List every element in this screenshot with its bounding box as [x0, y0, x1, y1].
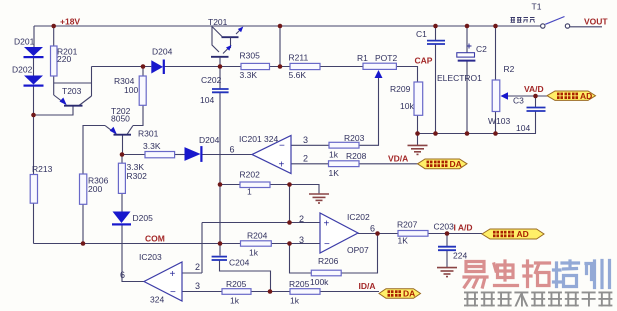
ground G3 below C203	[437, 268, 457, 277]
resistor R207	[398, 231, 428, 237]
svg-text:R206: R206	[318, 256, 339, 266]
svg-text:+: +	[170, 269, 176, 280]
wire W103 wiper to VA/D callout	[508, 95, 547, 97]
wire D204 cathode to T201/C202 node	[165, 66, 242, 68]
resistor R206	[311, 270, 341, 276]
transistor T203	[54, 95, 92, 106]
svg-text:3: 3	[195, 281, 200, 291]
node T201 emitter C202	[218, 64, 223, 69]
svg-text:6: 6	[230, 145, 235, 155]
svg-text:220: 220	[57, 54, 71, 64]
node C203	[445, 231, 450, 236]
wire R202 right to ground G2	[270, 185, 319, 194]
wire R213 bottom to COM corner	[33, 203, 35, 244]
wire C204 top stub	[219, 244, 221, 256]
wire D204 row drop to T203	[91, 67, 93, 97]
svg-text:D201: D201	[14, 37, 35, 47]
svg-text:R203: R203	[344, 133, 365, 143]
wire D204 cathode to IC201 output pin 6	[202, 154, 252, 156]
svg-text:C204: C204	[229, 258, 250, 268]
svg-text:D202: D202	[12, 65, 33, 75]
svg-text:CAP: CAP	[415, 56, 433, 66]
wire R204 to IC202 pin 3	[271, 243, 320, 245]
svg-text:−: −	[170, 287, 176, 298]
resistor R209	[414, 82, 423, 115]
svg-text:AD: AD	[580, 91, 592, 101]
node rail R201	[51, 24, 56, 29]
svg-text:224: 224	[453, 251, 467, 261]
diode D202	[24, 76, 44, 87]
svg-text:R202: R202	[240, 170, 261, 180]
svg-text:R208: R208	[346, 151, 367, 161]
node R205 C204	[268, 289, 273, 294]
transistor T201 darlington	[211, 26, 243, 67]
svg-text:+: +	[279, 160, 285, 171]
svg-text:2: 2	[195, 262, 200, 272]
wire R306 bottom to COM	[82, 204, 84, 243]
svg-text:−: −	[279, 141, 285, 152]
svg-text:6: 6	[370, 224, 375, 234]
svg-text:R301: R301	[138, 129, 159, 139]
svg-text:104: 104	[200, 95, 214, 105]
wire R205 to R205 second	[251, 291, 290, 293]
svg-text:C202: C202	[201, 75, 222, 85]
svg-text:T1: T1	[532, 2, 542, 12]
wire R2 top leg from rail	[495, 26, 497, 80]
svg-text:R211: R211	[289, 53, 309, 63]
node rail R305 R211	[278, 24, 283, 29]
resistor R204	[241, 241, 272, 246]
wire C1 top stub	[435, 26, 437, 40]
node R202 left	[218, 182, 223, 187]
node T202 base R301 R302	[120, 152, 125, 157]
node rail C1	[433, 24, 438, 29]
wire R301 to D204 anode	[175, 154, 185, 156]
svg-text:W103: W103	[488, 116, 510, 126]
wire R206 left leg up to IC202 pin 3	[290, 244, 312, 274]
svg-text:C1: C1	[416, 29, 427, 39]
svg-text:C3: C3	[513, 96, 524, 106]
svg-text:R2: R2	[504, 64, 515, 74]
svg-text:3: 3	[299, 235, 304, 245]
svg-text:C203: C203	[434, 222, 455, 232]
svg-text:3.3K: 3.3K	[240, 70, 258, 80]
wire R208 to VD/A callout	[359, 163, 418, 165]
ground G1 below R209	[417, 134, 419, 146]
potentiometer R2 W103	[492, 80, 508, 112]
wire IC202 pin2 / COM / IC203 pin2 vertical	[201, 223, 203, 274]
wire R305/R211 node to power rail	[279, 26, 281, 67]
wire R202 left leg	[220, 184, 240, 186]
wire C2 bottom leg	[466, 62, 468, 134]
svg-text:R1: R1	[357, 53, 368, 63]
svg-text:R209: R209	[390, 84, 411, 94]
node ground C2	[465, 131, 470, 136]
svg-text:1: 1	[247, 187, 252, 197]
svg-text:R205: R205	[289, 279, 310, 289]
wire analog ground row	[418, 133, 537, 135]
node IC202 pin2	[287, 220, 292, 225]
resistor R304	[139, 76, 146, 105]
diode D201	[24, 47, 44, 58]
svg-text:−: −	[324, 239, 330, 250]
svg-text:DA: DA	[403, 289, 415, 299]
resistor R305	[241, 63, 270, 69]
svg-text:D204: D204	[199, 135, 220, 145]
wire C204 bottom to R205 node	[220, 260, 271, 292]
svg-text:2: 2	[299, 214, 304, 224]
svg-text:1K: 1K	[329, 168, 340, 178]
label polarity switch chinese	[511, 18, 535, 23]
resistor R205 second	[290, 289, 320, 295]
svg-text:T201: T201	[208, 17, 228, 27]
wire D201-D202 link	[33, 58, 35, 76]
node IC202 output	[375, 231, 380, 236]
resistor R306	[80, 174, 87, 204]
svg-text:+: +	[324, 219, 330, 230]
wire R305 to R211	[270, 66, 291, 68]
watermark tagline RF antenna experts	[464, 292, 612, 307]
wire C3 top stub	[535, 96, 537, 107]
svg-text:D205: D205	[133, 213, 154, 223]
wire R302 bottom to D205	[121, 193, 123, 211]
watermark logo yidita training	[464, 261, 610, 288]
wire W103 bottom leg	[495, 112, 497, 134]
svg-text:IC201 324: IC201 324	[239, 134, 278, 144]
wire R201 bottom leg	[53, 76, 55, 95]
node R204 IC202 pin3	[287, 241, 292, 246]
capacitor C204	[212, 257, 227, 260]
diode D204 second	[185, 146, 203, 162]
node R304 top	[141, 64, 146, 69]
wire row to D204 anode	[92, 66, 152, 68]
svg-text:200: 200	[88, 184, 102, 194]
wire R201 bottom to T203 right branch	[54, 82, 92, 84]
svg-text:2: 2	[303, 154, 308, 164]
op-amp IC202 OP07	[320, 213, 358, 253]
wire C203 bottom to ground	[446, 251, 448, 268]
resistor R205 first	[222, 289, 251, 295]
wire R207 to C203 node and I A/D callout	[428, 233, 482, 235]
svg-text:I A/D: I A/D	[454, 223, 473, 233]
svg-text:104: 104	[516, 123, 530, 133]
svg-text:C2: C2	[476, 44, 487, 54]
wire node at D202 bottom to T203 collector	[34, 106, 74, 115]
wire D205 cathode down to IC203 output	[122, 226, 144, 282]
capacitor C2 electrolytic	[457, 44, 476, 61]
svg-text:1k: 1k	[230, 296, 240, 306]
svg-text:COM: COM	[145, 234, 165, 244]
diode D204 first	[151, 60, 165, 75]
svg-text:D204: D204	[152, 47, 173, 57]
capacitor C202	[212, 89, 229, 92]
wire C1 bottom leg	[435, 44, 437, 134]
svg-text:ELECTRO1: ELECTRO1	[437, 73, 482, 83]
svg-text:+18V: +18V	[60, 17, 80, 27]
wire IC201 pin 3 to R203	[291, 144, 329, 146]
node rail R2	[493, 24, 498, 29]
resistor R202	[240, 182, 270, 188]
resistor R203	[329, 142, 359, 148]
capacitor C1	[427, 41, 445, 44]
wire R304 bottom to T202 collector	[133, 105, 143, 125]
svg-text:324: 324	[150, 295, 164, 305]
wire C3 bottom to ground row	[535, 112, 537, 134]
svg-text:DA: DA	[450, 159, 462, 169]
callout VD/A direct voltage DA	[418, 159, 468, 169]
capacitor C203	[438, 247, 456, 251]
wire T202 base below bar	[122, 135, 124, 155]
resistor R213	[30, 175, 37, 204]
wire R205 to ID/A callout	[320, 291, 379, 293]
svg-text:100k: 100k	[310, 277, 329, 287]
wire R304 top leg	[142, 67, 144, 77]
capacitor C3	[527, 108, 546, 112]
svg-text:ID/A: ID/A	[359, 281, 376, 291]
svg-text:5.6K: 5.6K	[289, 70, 307, 80]
wire R211 to R1	[320, 66, 363, 68]
wire COM row left part	[34, 243, 241, 245]
svg-text:OP07: OP07	[347, 245, 369, 255]
wire IC202 output to R207	[358, 233, 398, 235]
node COM C204	[218, 241, 223, 246]
node ground R209	[415, 131, 420, 136]
resistor R201	[51, 46, 58, 76]
node R305 R211	[278, 64, 283, 69]
svg-text:R213: R213	[32, 164, 53, 174]
wire D201 top leg	[33, 26, 35, 47]
svg-text:1k: 1k	[290, 296, 300, 306]
callout VA/D direct voltage AD	[547, 91, 596, 101]
svg-text:VD/A: VD/A	[388, 154, 408, 164]
node wiper C3	[533, 94, 538, 99]
svg-text:T203: T203	[62, 86, 82, 96]
resistor R208	[329, 161, 360, 167]
svg-text:R207: R207	[397, 220, 418, 230]
wire D202 to R213 column	[33, 87, 35, 175]
resistor R211	[290, 63, 320, 69]
wire C2 top stub	[466, 26, 468, 53]
wire IC203 pin 2 stub	[182, 272, 202, 274]
node ground C1	[433, 131, 438, 136]
wire switch T1 to VOUT	[570, 26, 602, 28]
wire IC203 pin 3 to R205	[182, 291, 222, 293]
wire R202 node down to IC202 pin 2	[289, 185, 291, 223]
svg-text:R305: R305	[240, 51, 261, 61]
node COM R306	[81, 241, 86, 246]
resistor R301	[145, 152, 175, 158]
switch T1	[541, 17, 570, 29]
diode D205	[112, 212, 131, 226]
svg-text:1k: 1k	[329, 150, 339, 160]
node ground W103	[493, 131, 498, 136]
svg-text:3.3K: 3.3K	[143, 141, 161, 151]
svg-text:R302: R302	[127, 171, 148, 181]
op-amp IC203 324	[144, 262, 182, 301]
svg-text:1K: 1K	[398, 236, 409, 246]
svg-text:100: 100	[124, 85, 138, 95]
wire IC201 pin 2 to R208	[291, 163, 328, 165]
svg-text:IC202: IC202	[347, 212, 370, 222]
wire C202 top leg	[219, 67, 221, 89]
svg-text:R204: R204	[247, 231, 268, 241]
svg-text:AD: AD	[517, 229, 529, 239]
svg-text:6: 6	[120, 270, 125, 280]
wire IC202 pin 2 row	[202, 222, 320, 224]
wire C202 bottom bus down to COM row	[219, 93, 221, 244]
node R202 right	[287, 182, 292, 187]
svg-text:3: 3	[303, 135, 308, 145]
callout I A/D direct current AD	[482, 229, 544, 239]
svg-text:VA/D: VA/D	[524, 84, 544, 94]
wire R301 left leg	[122, 154, 145, 156]
wire R1 to CAP corner and R209	[397, 67, 418, 83]
svg-text:VOUT: VOUT	[584, 17, 608, 27]
wire +18V power rail	[34, 25, 541, 27]
svg-text:POT2: POT2	[375, 53, 397, 63]
wire R206 right leg up to IC202 output	[341, 234, 377, 274]
potentiometer R1 POT2	[363, 63, 396, 78]
svg-text:R205: R205	[226, 279, 247, 289]
wire R209 bottom leg	[417, 115, 419, 133]
node D202 T203	[31, 113, 36, 118]
svg-text:IC203: IC203	[139, 252, 162, 262]
callout ID/A current DA	[379, 289, 421, 299]
wire R201 top leg	[53, 26, 55, 46]
wire R302 top leg	[121, 155, 123, 164]
svg-text:1k: 1k	[249, 248, 259, 258]
svg-text:10k: 10k	[400, 101, 414, 111]
ground G2 below R202	[309, 194, 329, 203]
wire C203 top stub	[446, 234, 448, 247]
op-amp IC201 324	[252, 136, 291, 174]
svg-text:8050: 8050	[111, 114, 130, 124]
node rail C2	[465, 24, 470, 29]
wire R306 top leg to T202 emitter	[83, 126, 105, 175]
wire R203 to POT2 wiper line	[359, 78, 379, 145]
transistor T202 8050	[105, 126, 133, 135]
resistor R302	[118, 163, 125, 193]
